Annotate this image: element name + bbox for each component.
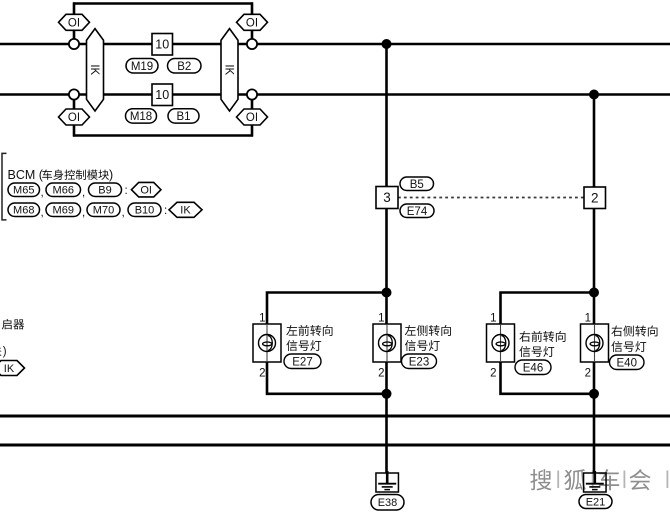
svg-text:IK: IK xyxy=(223,64,235,75)
svg-text:OI: OI xyxy=(246,17,258,29)
svg-text::: : xyxy=(125,185,128,197)
svg-text:E74: E74 xyxy=(407,206,428,218)
svg-text:E40: E40 xyxy=(617,357,637,369)
svg-text:M70: M70 xyxy=(93,205,114,217)
svg-text:B1: B1 xyxy=(176,111,190,123)
svg-text:1: 1 xyxy=(585,313,591,325)
svg-text:3: 3 xyxy=(383,190,391,205)
svg-text:,: , xyxy=(82,207,85,219)
svg-text:2: 2 xyxy=(259,368,265,380)
svg-text:M65: M65 xyxy=(13,185,34,197)
svg-text::: : xyxy=(164,205,167,217)
svg-text:BCM (: BCM ( xyxy=(8,168,44,182)
svg-text:B5: B5 xyxy=(410,179,424,191)
svg-text:OI: OI xyxy=(68,112,80,124)
svg-text:1: 1 xyxy=(490,313,496,325)
svg-text:IK: IK xyxy=(180,205,191,217)
svg-text:M66: M66 xyxy=(53,185,74,197)
svg-text:,: , xyxy=(82,187,85,199)
svg-text:M68: M68 xyxy=(13,205,34,217)
svg-text:): ) xyxy=(109,168,113,182)
svg-text:E46: E46 xyxy=(523,362,543,374)
svg-text:2: 2 xyxy=(591,191,599,206)
svg-text:B2: B2 xyxy=(177,61,191,73)
svg-text:1: 1 xyxy=(378,313,384,325)
svg-text:B10: B10 xyxy=(135,205,155,217)
svg-text:OI: OI xyxy=(246,112,258,124)
svg-text:1: 1 xyxy=(259,313,265,325)
svg-text:,: , xyxy=(41,187,44,199)
svg-text:B9: B9 xyxy=(98,185,111,197)
svg-text:10: 10 xyxy=(155,38,169,52)
svg-text:OI: OI xyxy=(140,185,152,197)
svg-text:M18: M18 xyxy=(130,111,152,123)
svg-text:2: 2 xyxy=(378,368,384,380)
svg-text:E23: E23 xyxy=(409,356,429,368)
svg-text:IK: IK xyxy=(88,64,100,75)
svg-text:M19: M19 xyxy=(131,61,153,73)
svg-text:): ) xyxy=(3,346,7,358)
svg-text:10: 10 xyxy=(155,88,169,102)
svg-text:2: 2 xyxy=(585,368,591,380)
svg-text:E38: E38 xyxy=(378,497,398,509)
svg-text:E21: E21 xyxy=(586,496,606,508)
svg-text:M69: M69 xyxy=(53,205,74,217)
svg-text:IK: IK xyxy=(4,363,15,375)
svg-text:E27: E27 xyxy=(292,356,312,368)
svg-text:,: , xyxy=(41,207,44,219)
svg-text:OI: OI xyxy=(68,17,80,29)
svg-text:,: , xyxy=(122,207,125,219)
svg-text:2: 2 xyxy=(490,368,496,380)
